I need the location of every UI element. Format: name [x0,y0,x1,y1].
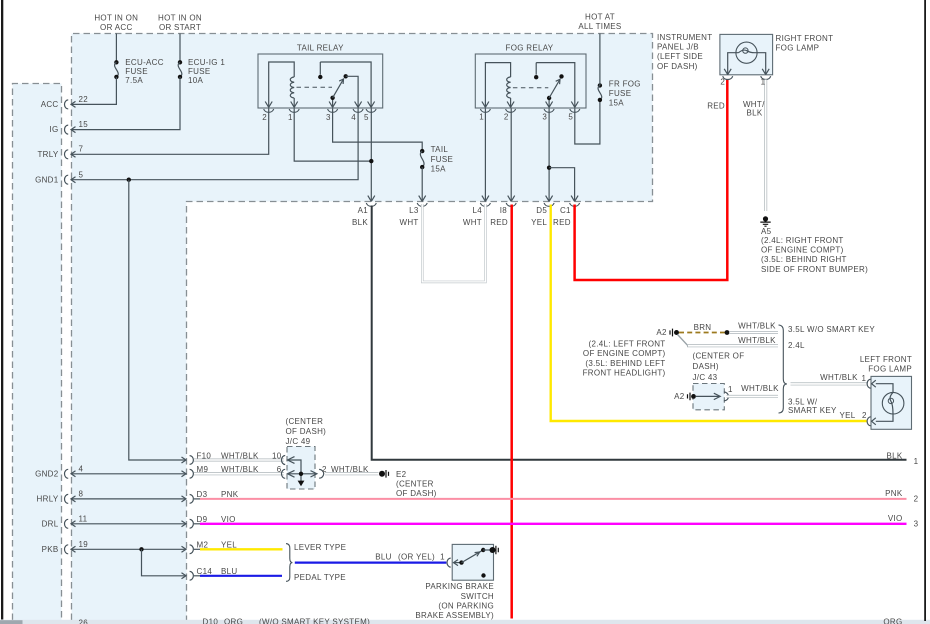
page border right [924,0,926,621]
svg-text:ORG: ORG [224,618,243,624]
wire L3 WHT loop to L4 [422,204,485,282]
svg-text:ORG: ORG [883,618,902,624]
svg-text:1: 1 [288,113,293,122]
svg-text:7: 7 [79,145,84,154]
svg-text:2.4L: 2.4L [788,341,805,350]
wire D9 VIO to right edge [194,523,201,525]
svg-text:BRN: BRN [694,323,712,332]
svg-text:RED: RED [553,218,571,227]
fog relay box [475,54,586,108]
wire M2 YEL lever type [194,548,201,550]
svg-text:OF DASH): OF DASH) [396,489,437,498]
svg-text:ALL TIMES: ALL TIMES [578,22,621,31]
svg-text:IG: IG [49,125,58,134]
svg-text:3.5L W/O SMART KEY: 3.5L W/O SMART KEY [788,325,875,334]
fog relay pin sockets [480,109,579,112]
svg-text:A1: A1 [358,206,369,215]
wire WHT/BLK J/C 49 to E2 [325,472,379,475]
tail relay internal: coil loop pins 2-1 [269,62,295,108]
svg-text:BLK: BLK [746,108,762,117]
svg-text:BRAKE ASSEMBLY): BRAKE ASSEMBLY) [415,611,494,620]
fog relay fixed contact from top [535,63,537,75]
svg-text:FUSE: FUSE [431,155,454,164]
svg-text:D5: D5 [536,206,547,215]
svg-text:3: 3 [326,113,331,122]
svg-text:BLU: BLU [375,553,391,562]
svg-text:GND1: GND1 [35,175,59,184]
svg-text:ECU-IG 1: ECU-IG 1 [188,58,225,67]
svg-text:PARKING BRAKE: PARKING BRAKE [425,582,494,591]
svg-text:WHT/BLK: WHT/BLK [221,451,259,460]
svg-text:C14: C14 [197,567,213,576]
wire PKB branch to C14 [142,549,185,576]
svg-text:26: 26 [79,619,89,624]
svg-text:10: 10 [272,451,282,460]
svg-text:LEFT FRONT: LEFT FRONT [860,355,912,364]
page border left [1,0,3,620]
svg-text:8: 8 [79,490,84,499]
svg-text:RIGHT FRONT: RIGHT FRONT [776,34,834,43]
svg-text:YEL: YEL [221,541,237,550]
svg-text:4: 4 [79,464,84,473]
junction node on GND1 wire [127,178,131,182]
svg-text:VIO: VIO [221,515,236,524]
svg-text:(3.5L: BEHIND LEFT: (3.5L: BEHIND LEFT [585,359,665,368]
svg-text:(W/O SMART KEY SYSTEM): (W/O SMART KEY SYSTEM) [259,618,370,624]
svg-text:WHT/BLK: WHT/BLK [738,321,776,330]
connector-side dashed box (left ECU connector) [13,84,62,621]
svg-text:FOG LAMP: FOG LAMP [776,44,820,53]
wire BLU (OR YEL) to parking brake switch [295,561,447,563]
J/C 49 exit pin 2 [311,471,317,477]
svg-text:1: 1 [728,385,733,394]
svg-text:(CENTER: (CENTER [286,417,324,426]
fog relay top bus to pin 5 [536,63,575,108]
svg-text:HOT IN ON: HOT IN ON [94,14,138,23]
connector E2 [379,470,389,478]
fuse ECU-ACC 7.5A [114,60,118,79]
fuse ECU-IG 1 10A [178,60,182,79]
fog relay switch common from pin 3 [548,98,550,108]
svg-text:YEL: YEL [839,411,855,420]
svg-text:J/C 49: J/C 49 [286,437,311,446]
svg-text:2: 2 [720,78,725,87]
svg-text:5: 5 [79,170,84,179]
svg-text:D3: D3 [197,490,208,499]
wire BRN dashed from A2 [679,332,725,334]
wire C1 RED to right front fog lamp pin 2 [575,79,728,280]
svg-text:5: 5 [568,113,573,122]
wire GND1 branch down to F10 [129,180,185,460]
svg-text:OF ENGINE COMPT): OF ENGINE COMPT) [583,349,666,358]
fog relay internal: coil loop pins 1-2 [485,63,510,108]
left front fog lamp internals [867,379,904,426]
svg-text:3: 3 [914,520,919,529]
wire J/C 43 pin 1 WHT/BLK to brace [727,395,779,398]
svg-text:(CENTER: (CENTER [396,480,434,489]
connector A2 (engine compartment) [670,329,679,337]
tail relay switch common from pin 3 [332,98,334,108]
svg-text:FUSE: FUSE [125,67,148,76]
fog relay dashed actuator link [513,87,548,89]
svg-text:3: 3 [542,113,547,122]
svg-text:SWITCH: SWITCH [461,592,494,601]
fog relay coil [507,77,511,98]
J/B bottom exit sockets [366,203,579,206]
svg-text:TAIL: TAIL [431,145,449,154]
svg-text:C1: C1 [560,206,571,215]
svg-text:PANEL J/B: PANEL J/B [657,43,699,52]
wire FR FOG fuse feed from HOT AT ALL TIMES [599,34,601,86]
svg-text:DRL: DRL [42,519,59,528]
svg-text:WHT/BLK: WHT/BLK [221,465,259,474]
svg-text:22: 22 [79,95,89,104]
svg-text:I8: I8 [500,206,508,215]
wire D5 YEL to left front fog lamp pin 2 [551,205,867,422]
svg-text:5: 5 [364,113,369,122]
svg-text:D9: D9 [197,515,208,524]
svg-text:RED: RED [490,218,508,227]
svg-text:2: 2 [914,495,919,504]
svg-text:INSTRUMENT: INSTRUMENT [657,33,712,42]
tail relay dashed actuator link [297,86,333,88]
svg-text:E2: E2 [396,470,407,479]
svg-text:WHT/BLK: WHT/BLK [820,373,858,382]
ground A5 [760,216,770,226]
wire I8 RED down to bottom [510,205,513,619]
svg-text:A2: A2 [674,392,685,401]
svg-text:FRONT HEADLIGHT): FRONT HEADLIGHT) [583,369,666,378]
brace grouping engine variants [779,325,787,413]
wire DRL pin 11 to D9 [71,523,185,525]
wire M9 WHT/BLK to J/C 49 [194,472,284,475]
svg-text:6: 6 [277,465,282,474]
svg-text:11: 11 [79,515,88,524]
wire right front fog lamp pin 1 WHT/BLK to ground [764,80,767,212]
svg-text:VIO: VIO [888,514,903,523]
svg-text:RED: RED [707,102,725,111]
tail relay pin sockets [264,109,376,112]
svg-text:WHT/BLK: WHT/BLK [738,336,776,345]
svg-text:2: 2 [322,465,327,474]
svg-text:LEVER TYPE: LEVER TYPE [294,543,346,552]
svg-text:1: 1 [479,113,484,122]
svg-text:TAIL RELAY: TAIL RELAY [297,43,344,52]
svg-text:4: 4 [351,113,356,122]
svg-text:WHT/BLK: WHT/BLK [331,465,369,474]
tail relay switch arm [333,80,344,98]
wire ECU-IG 1 fuse feed from HOT IN ON OR START [179,34,181,63]
svg-text:FOG LAMP: FOG LAMP [868,365,912,374]
svg-text:FOG RELAY: FOG RELAY [506,43,554,52]
svg-text:FUSE: FUSE [188,67,211,76]
wire fog relay pin 1 to L4 exit [484,109,486,202]
parking brake switch box [452,544,493,580]
wire fog relay pin 5 to FR FOG fuse [575,100,600,144]
brace lever/pedal merge [286,544,292,582]
svg-text:ACC: ACC [41,100,59,109]
svg-text:19: 19 [79,540,89,549]
svg-text:7.5A: 7.5A [125,76,143,85]
svg-text:(OR YEL): (OR YEL) [398,553,435,562]
wire tail relay pin 1 to A1 line [294,109,371,162]
fuse TAIL 15A [420,149,424,169]
tail relay fixed contact from top [319,62,321,75]
svg-text:2: 2 [504,113,509,122]
scrollbar corner block [0,620,23,624]
J/B left column exit arrows F10 M9 D3 D9 M2 C14 [182,456,194,581]
svg-text:BLK: BLK [352,218,368,227]
wire branch to C1 exit [549,168,575,202]
wire PKB pin 19 to M2 [71,548,185,550]
wire TRLY pin 7 to tail relay pin 2 [71,109,269,155]
right front fog lamp box [720,34,773,74]
svg-text:FR FOG: FR FOG [609,80,641,89]
right front fog lamp internals [723,42,771,79]
svg-text:F10: F10 [197,451,212,460]
svg-text:OR ACC: OR ACC [100,23,132,32]
svg-text:(3.5L: BEHIND RIGHT: (3.5L: BEHIND RIGHT [761,255,847,264]
fog relay pin arrows [482,102,578,108]
svg-text:15A: 15A [431,164,446,173]
junction connector J/C 43 internals [688,392,729,401]
svg-text:A5: A5 [761,227,772,236]
wire tail relay pin 3 to tail fuse [333,109,423,152]
svg-text:PKB: PKB [42,545,59,554]
svg-text:L4: L4 [473,206,483,215]
svg-text:OF DASH): OF DASH) [286,427,327,436]
svg-text:M2: M2 [197,541,209,550]
wire fuse ECU-ACC to ACC pin 22 [71,77,116,105]
svg-text:(2.4L: LEFT FRONT: (2.4L: LEFT FRONT [589,339,666,348]
wire A1 BLK to right edge [372,206,907,460]
parking brake switch internals [447,546,498,578]
wire GND2 pin 4 to M9 [71,473,185,475]
wire C14 BLU pedal type [194,575,201,577]
wire WHT/BLK 2.4L [678,335,689,346]
fog relay switch arm [549,80,560,98]
instrument panel J/B dashed box [72,34,653,621]
tail relay coil [290,77,294,98]
svg-text:A2: A2 [656,328,667,337]
tail relay pin arrows [265,102,374,108]
svg-text:BLU: BLU [221,567,237,576]
tail relay top bus to pin 5 [320,62,371,108]
svg-text:TRLY: TRLY [37,150,58,159]
wire ECU-ACC fuse feed from HOT IN ON OR ACC [115,34,117,63]
svg-text:WHT/BLK: WHT/BLK [741,384,779,393]
svg-text:PEDAL TYPE: PEDAL TYPE [294,573,346,582]
wire D3 PNK to right edge [194,498,201,500]
svg-text:2: 2 [862,411,867,420]
svg-text:HOT IN ON: HOT IN ON [158,14,202,23]
fuse FR FOG 15A [598,83,602,102]
svg-text:OF ENGINE COMPT): OF ENGINE COMPT) [761,246,844,255]
wire fuse ECU-IG 1 to IG pin 15 [71,77,180,130]
J/B bottom exit arrows A1 L3 L4 I8 D5 C1 [368,196,578,202]
svg-text:SMART KEY: SMART KEY [788,406,837,415]
svg-text:OR START: OR START [159,23,201,32]
svg-text:HOT AT: HOT AT [585,13,615,22]
svg-text:PNK: PNK [221,490,239,499]
svg-text:15A: 15A [609,98,624,107]
svg-text:FUSE: FUSE [609,89,632,98]
svg-text:(ON PARKING: (ON PARKING [438,601,494,610]
svg-text:HRLY: HRLY [37,495,59,504]
svg-text:10A: 10A [188,76,203,85]
svg-text:1: 1 [914,457,919,466]
wire tail fuse to L3 exit [421,167,423,201]
svg-text:(LEFT SIDE: (LEFT SIDE [657,52,703,61]
svg-text:1: 1 [761,78,766,87]
svg-text:M9: M9 [197,465,209,474]
wire GND1 pin 5 to tail relay pin 4 [71,109,358,180]
svg-text:WHT: WHT [463,218,482,227]
svg-text:15: 15 [79,120,89,129]
wire tail relay pin 5 down to A1 exit [370,109,372,202]
junction connector J/C 49 box [287,447,315,490]
svg-text:PNK: PNK [885,489,903,498]
svg-text:YEL: YEL [531,218,547,227]
svg-text:D10: D10 [203,618,219,624]
wire fog relay pin 2 to I8 exit [510,109,512,202]
wire HRLY pin 8 to D3 [71,498,185,500]
wire F10 WHT/BLK to J/C 49 [194,459,284,462]
svg-text:OF DASH): OF DASH) [657,62,698,71]
svg-text:J/C 43: J/C 43 [693,373,718,382]
J/C 49 internal wires [288,460,301,483]
svg-text:SIDE OF FRONT BUMPER): SIDE OF FRONT BUMPER) [761,265,868,274]
junction connector J/C 43 box [693,384,724,410]
tail relay box [258,54,383,108]
svg-text:DASH): DASH) [693,362,719,371]
svg-text:1: 1 [440,553,445,562]
svg-text:1: 1 [862,374,867,383]
svg-text:(2.4L: RIGHT FRONT: (2.4L: RIGHT FRONT [761,236,844,245]
svg-text:L3: L3 [409,206,419,215]
svg-text:BLK: BLK [886,451,902,460]
wire WHT/BLK brace to left front fog lamp pin 1 [791,382,867,385]
wire fog relay pin 3 to D5 exit [548,109,550,202]
bottom strip [0,620,930,624]
svg-text:GND2: GND2 [35,469,59,478]
svg-text:2: 2 [262,113,267,122]
svg-text:WHT: WHT [399,218,418,227]
svg-text:ECU-ACC: ECU-ACC [125,58,164,67]
left connector entries ACC IG TRLY GND1 GND2 HRLY DRL PKB [64,100,75,554]
svg-text:(CENTER OF: (CENTER OF [693,351,745,360]
wire WHT/BLK 3.5L w/o smart key [729,331,778,334]
left front fog lamp box [871,376,912,429]
tail relay contact to pin 4 [346,76,358,107]
J/C 49 entry connectors pins 10 and 6 [282,456,295,479]
